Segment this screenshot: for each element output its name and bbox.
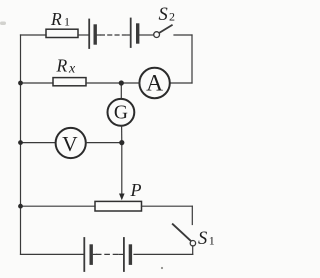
node junction rail Rx: [18, 81, 23, 86]
speck left edge: [0, 22, 6, 26]
wire dashed bottom battery: [97, 253, 120, 255]
svg-text:G: G: [114, 103, 128, 124]
wire Rx to node: [86, 82, 121, 84]
resistor Rx: [53, 78, 86, 86]
wire slider arm vertical: [121, 143, 123, 196]
svg-text:A: A: [146, 70, 163, 96]
ammeter A: [139, 68, 169, 98]
rheostat P body: [95, 201, 142, 211]
battery B2 cell 1 long plate: [83, 238, 85, 271]
wire ammeter to node: [121, 82, 139, 84]
wire cell 2 to switch S2: [139, 34, 153, 36]
wire right rail: [191, 35, 193, 83]
wire stub after cell 1: [97, 34, 100, 36]
switch S2 pivot circle: [154, 32, 160, 38]
wire right rail lower: [191, 206, 193, 224]
wire voltmeter row left: [21, 142, 56, 144]
svg-text:V: V: [62, 132, 78, 156]
wire left rail: [20, 35, 22, 254]
wire S1 to bottom corner: [192, 246, 194, 255]
battery B1 cell 2 long plate: [130, 19, 132, 48]
svg-text:2: 2: [169, 10, 175, 24]
battery B1 cell 2 short plate: [136, 25, 139, 42]
wire right rail to ammeter: [170, 82, 192, 84]
svg-text:1: 1: [64, 15, 70, 29]
svg-text:R: R: [56, 56, 68, 76]
svg-text:P: P: [130, 180, 142, 200]
wire rheostat to right: [142, 205, 193, 207]
switch S2 blade: [160, 25, 172, 32]
wire dashed between cells: [101, 34, 129, 36]
resistor R1: [46, 29, 78, 37]
battery B2 cell 2 short plate: [129, 246, 132, 263]
switch S1 blade: [173, 224, 191, 241]
node junction rail rheostat: [18, 204, 23, 209]
wire stub before cell 2: [128, 34, 131, 36]
wire rheostat row left: [21, 205, 96, 207]
battery B1 cell 1 short plate: [93, 26, 96, 43]
svg-text:x: x: [68, 62, 76, 77]
svg-text:S: S: [198, 229, 207, 249]
svg-text:1: 1: [209, 234, 215, 248]
wire galvanometer to node B: [121, 126, 123, 143]
svg-text:S: S: [159, 5, 168, 25]
battery B1 cell 1 long plate: [88, 20, 90, 49]
node junction Rx ammeter G: [119, 80, 124, 85]
wire R1 to battery: [78, 34, 89, 36]
wire voltmeter to node B: [86, 142, 122, 144]
wire bottom left: [21, 253, 84, 255]
wire bottom right: [134, 253, 193, 255]
wire node to galvanometer: [120, 83, 122, 99]
wire top left (rail to R1): [21, 34, 47, 36]
voltmeter V: [56, 128, 86, 158]
svg-text:R: R: [50, 9, 62, 29]
wire stub before cell 2 bottom: [119, 253, 123, 255]
switch S1 pivot circle: [190, 241, 195, 246]
battery B2 cell 1 short plate: [89, 246, 92, 263]
wire Rx row left: [21, 82, 54, 84]
wire S2 to top right corner: [174, 34, 192, 36]
battery B2 cell 2 long plate: [123, 238, 125, 271]
node junction G voltmeter slider: [119, 140, 124, 145]
node junction rail voltmeter: [18, 140, 23, 145]
slider arrow head: [119, 194, 125, 201]
speck bottom center: [161, 267, 163, 269]
wire stub after cell 1 bottom: [93, 253, 96, 255]
galvanometer G: [108, 99, 135, 126]
